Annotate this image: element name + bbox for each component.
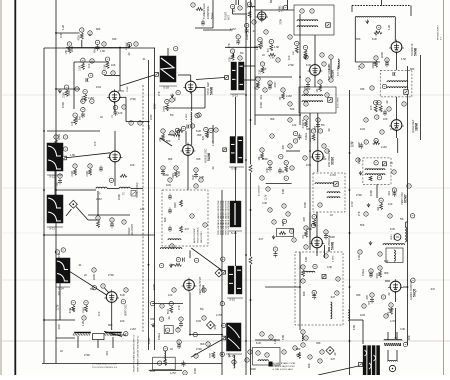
svg-text:27K: 27K — [157, 91, 161, 96]
capacitor C80 — [194, 168, 198, 172]
node — [81, 99, 85, 103]
svg-text:3.3K: 3.3K — [327, 265, 333, 269]
IF transformer box T11 — [294, 5, 334, 35]
resistor R35 — [269, 53, 276, 56]
svg-text:10K: 10K — [246, 16, 248, 20]
svg-text:TO FOCUS CONTROL 5-9: TO FOCUS CONTROL 5-9 — [92, 367, 118, 369]
svg-text:HOLD CONTROL: HOLD CONTROL — [198, 226, 200, 243]
svg-text:120: 120 — [140, 207, 145, 211]
wire — [350, 319, 364, 321]
wire — [187, 156, 189, 191]
capacitor C50 — [316, 118, 320, 122]
svg-text:.02: .02 — [333, 352, 337, 356]
tube V15 triode — [394, 234, 401, 241]
wire — [394, 18, 396, 42]
svg-text:270V: 270V — [280, 19, 283, 25]
svg-text:470: 470 — [97, 311, 101, 316]
node — [320, 53, 324, 57]
ground — [272, 235, 275, 239]
svg-text:A 12AX7 B 5AN8 C 3CB6: A 12AX7 B 5AN8 C 3CB6 — [273, 362, 297, 365]
potentiometer vert lin — [73, 331, 122, 348]
svg-text:39K: 39K — [322, 157, 327, 161]
capacitor C91 — [268, 161, 272, 165]
wire — [148, 60, 150, 350]
svg-text:150K: 150K — [61, 102, 65, 108]
node — [266, 187, 270, 191]
node test point M4 — [207, 321, 215, 329]
svg-text:1.5K: 1.5K — [401, 57, 407, 61]
resistor R70 — [54, 135, 58, 139]
resistor R11 — [67, 42, 71, 46]
svg-text:.001: .001 — [105, 350, 109, 356]
svg-text:ANT: ANT — [228, 15, 231, 20]
coil L30 — [247, 2, 251, 6]
wire — [167, 48, 169, 56]
sound IF transformer box T15 — [380, 70, 412, 97]
svg-text:3.3K: 3.3K — [296, 353, 302, 357]
node — [411, 278, 415, 282]
node — [183, 371, 187, 375]
svg-text:10K: 10K — [383, 117, 388, 121]
svg-text:5AN8: 5AN8 — [414, 48, 418, 56]
antenna coil L2 — [355, 17, 395, 18]
svg-text:ADJUST HORIZ: ADJUST HORIZ — [193, 228, 196, 243]
node — [220, 301, 224, 305]
node — [324, 230, 328, 234]
wire — [407, 66, 409, 345]
node — [283, 5, 287, 9]
svg-text:5AN8: 5AN8 — [331, 242, 335, 250]
svg-text:4.7M: 4.7M — [390, 319, 396, 323]
svg-text:2.2M: 2.2M — [130, 327, 136, 331]
resistor R22 — [205, 132, 208, 139]
svg-text:1MEG: 1MEG — [255, 83, 259, 90]
node — [221, 257, 225, 261]
resistor R110 — [175, 263, 182, 266]
wire — [97, 191, 99, 215]
wire — [323, 245, 325, 258]
node — [364, 140, 368, 144]
coil L70 — [96, 187, 107, 188]
node — [387, 107, 391, 111]
node — [311, 223, 315, 227]
node — [301, 330, 305, 334]
svg-text:33K: 33K — [112, 37, 117, 41]
svg-text:220K: 220K — [63, 92, 65, 98]
svg-text:1.5K: 1.5K — [66, 49, 68, 54]
node — [293, 131, 297, 135]
wire — [167, 107, 205, 109]
svg-text:8.2K: 8.2K — [229, 56, 231, 61]
resistor R151 — [389, 303, 393, 307]
svg-text:5-13: 5-13 — [232, 94, 238, 98]
svg-text:5AN8: 5AN8 — [207, 153, 211, 161]
capacitor C20 — [187, 125, 189, 129]
node — [124, 332, 128, 336]
node — [301, 265, 305, 269]
svg-text:1.2K: 1.2K — [61, 24, 65, 30]
tube V11 — [182, 278, 197, 293]
node — [369, 269, 373, 273]
svg-text:5-14: 5-14 — [58, 287, 64, 291]
node — [403, 342, 407, 346]
svg-text:270K: 270K — [306, 227, 312, 231]
output transformer T17 — [384, 340, 402, 362]
wire — [105, 288, 110, 293]
node — [410, 214, 414, 218]
svg-text:560K: 560K — [262, 157, 268, 161]
svg-text:1meg: 1meg — [375, 30, 378, 37]
wire — [212, 0, 214, 28]
svg-text:470K: 470K — [377, 273, 379, 279]
coil L140 — [405, 227, 407, 242]
wire — [396, 350, 398, 360]
svg-text:33K: 33K — [306, 127, 311, 131]
fold line — [0, 340, 450, 342]
wire — [203, 29, 233, 31]
svg-text:10%: 10% — [196, 319, 202, 323]
svg-text:56K: 56K — [360, 223, 365, 227]
resistor R31 — [258, 38, 262, 42]
resistor R120 — [212, 352, 215, 359]
svg-text:.005: .005 — [302, 216, 306, 222]
resistor R33 — [230, 49, 234, 53]
svg-text:120: 120 — [168, 293, 173, 297]
svg-text:10%: 10% — [360, 127, 366, 131]
wire — [44, 319, 75, 321]
svg-text:8.2K: 8.2K — [372, 37, 378, 41]
svg-text:1.2K: 1.2K — [81, 320, 85, 326]
tube V10 — [181, 143, 196, 158]
coil L110 — [160, 248, 182, 249]
svg-text:1K: 1K — [283, 170, 285, 173]
capacitor C30 — [245, 23, 249, 27]
wire — [191, 122, 193, 145]
resistor R41 — [256, 77, 260, 81]
resistor R43 — [304, 50, 307, 57]
wire — [42, 363, 222, 365]
transformer T2 — [230, 62, 245, 98]
node — [102, 70, 106, 74]
resistor R10 — [80, 28, 84, 32]
svg-text:4.7M: 4.7M — [390, 127, 396, 131]
svg-text:39K: 39K — [197, 133, 202, 137]
svg-text:G 12B4 H 1G3 J 6AX4: G 12B4 H 1G3 J 6AX4 — [273, 368, 294, 371]
svg-text:6CM7: 6CM7 — [404, 194, 408, 203]
svg-text:1MEG: 1MEG — [157, 333, 161, 340]
svg-text:47K: 47K — [57, 253, 61, 258]
svg-text:470: 470 — [369, 105, 373, 110]
wire — [255, 339, 280, 341]
wire — [43, 48, 45, 363]
wire — [255, 9, 294, 11]
page edge — [0, 0, 2, 375]
svg-text:2.2M: 2.2M — [88, 96, 94, 100]
svg-text:27K: 27K — [177, 305, 181, 310]
wire — [47, 130, 100, 132]
wire — [420, 55, 422, 140]
wire — [316, 248, 318, 256]
node — [199, 178, 203, 182]
IF transformer box T13 — [313, 173, 345, 212]
svg-text:680: 680 — [306, 87, 311, 91]
wire - afc diagonal — [64, 153, 110, 158]
left margin rule — [14, 0, 16, 375]
wire - speaker lead diagonal — [318, 366, 359, 375]
svg-text:6.8K: 6.8K — [281, 188, 285, 194]
wire — [190, 75, 192, 81]
svg-text:10K: 10K — [111, 63, 116, 67]
wire — [56, 189, 80, 191]
svg-text:120: 120 — [292, 123, 297, 127]
coil L120 — [164, 351, 165, 361]
wire — [254, 0, 256, 125]
resistor R130 — [298, 352, 301, 359]
node — [392, 188, 396, 192]
node — [308, 355, 312, 359]
svg-text:10%: 10% — [306, 163, 312, 167]
IF transformer box T14 — [295, 252, 343, 325]
resistor R71 — [73, 164, 77, 168]
node — [121, 300, 125, 304]
wire — [396, 53, 398, 71]
resistor R90 — [284, 161, 288, 165]
value labels 2 — [57, 24, 415, 375]
resistor R15 — [83, 90, 87, 94]
capacitor C92 — [273, 247, 277, 251]
svg-text:10%: 10% — [96, 85, 102, 89]
svg-text:5-11: 5-11 — [49, 227, 55, 231]
svg-text:470: 470 — [93, 141, 97, 146]
svg-text:39K: 39K — [384, 271, 389, 275]
wire — [385, 280, 390, 282]
svg-text:560K: 560K — [163, 173, 169, 177]
svg-text:100K: 100K — [369, 190, 373, 196]
capacitor C13 — [89, 73, 93, 77]
svg-text:1.5K: 1.5K — [70, 153, 76, 157]
node — [268, 208, 272, 212]
tube V5 — [310, 149, 325, 164]
svg-text:VERT SWEEP CIRCUIT SEE PAGE 12: VERT SWEEP CIRCUIT SEE PAGE 12 — [137, 335, 140, 372]
node — [177, 340, 181, 344]
node — [360, 64, 364, 68]
svg-text:B 25.75MC: B 25.75MC — [338, 97, 340, 108]
node — [159, 317, 163, 321]
svg-text:10%: 10% — [166, 183, 172, 187]
svg-text:1MEG: 1MEG — [304, 133, 308, 140]
wire — [154, 48, 156, 350]
svg-text:SYNC: SYNC — [127, 86, 129, 92]
svg-text:1MEG: 1MEG — [177, 133, 181, 140]
sq tap on T9 — [222, 336, 226, 340]
svg-text:3.3K: 3.3K — [199, 175, 205, 179]
wire — [66, 47, 129, 49]
tube V2 — [183, 79, 198, 94]
wire — [232, 9, 234, 14]
svg-text:TRAP: TRAP — [282, 5, 285, 12]
blocking transformer T18 — [383, 244, 405, 263]
svg-text:HORIZ FREQ: HORIZ FREQ — [136, 183, 139, 198]
svg-text:.02: .02 — [127, 52, 131, 56]
svg-text:3.3K: 3.3K — [400, 327, 406, 331]
svg-text:82K: 82K — [302, 291, 306, 296]
node test point M2 — [326, 347, 334, 355]
resistor R40 — [260, 62, 264, 66]
svg-text:.0047: .0047 — [273, 81, 277, 88]
resistor R12 — [81, 58, 85, 62]
ground — [359, 171, 362, 175]
node — [129, 121, 133, 125]
ratio detector box T16 — [253, 348, 281, 366]
svg-text:33K: 33K — [360, 87, 365, 91]
svg-text:27K: 27K — [227, 43, 231, 48]
node — [63, 135, 67, 139]
svg-text:SNOWY PICTURE ADJUST NOTES 5-9: SNOWY PICTURE ADJUST NOTES 5-9 — [133, 334, 136, 372]
ground — [169, 264, 172, 268]
wire — [309, 130, 311, 250]
svg-text:.001: .001 — [387, 190, 391, 196]
core box — [131, 191, 136, 196]
resistor R30 — [248, 11, 251, 18]
svg-text:56K: 56K — [90, 287, 95, 291]
svg-text:270K: 270K — [196, 347, 202, 351]
svg-text:217V: 217V — [350, 141, 353, 147]
wire — [403, 286, 408, 288]
wire - diagonal to I block — [191, 339, 224, 358]
wire — [149, 369, 182, 371]
svg-text:5AQ5: 5AQ5 — [413, 288, 417, 297]
svg-text:.005: .005 — [227, 352, 231, 358]
svg-text:.02: .02 — [327, 128, 331, 132]
node — [286, 212, 290, 216]
node — [127, 42, 131, 46]
svg-text:47K: 47K — [357, 65, 361, 70]
svg-text:.0027: .0027 — [193, 174, 195, 180]
svg-text:CONTROL: CONTROL — [206, 5, 210, 19]
svg-text:2.2M: 2.2M — [286, 94, 292, 98]
wire — [221, 190, 223, 375]
elec cap box — [153, 357, 176, 370]
extra ref circles — [75, 6, 406, 364]
svg-text:.047: .047 — [330, 357, 336, 361]
svg-text:560K: 560K — [388, 307, 394, 311]
node — [301, 279, 305, 283]
wire — [309, 212, 311, 237]
svg-text:2.2M: 2.2M — [87, 171, 89, 176]
transformer T5 — [229, 137, 244, 171]
resistor R140 — [373, 142, 380, 145]
capacitor C120 — [181, 361, 185, 368]
resistor R141 — [379, 198, 383, 202]
coil L71 — [119, 187, 130, 188]
svg-text:220K: 220K — [92, 274, 96, 280]
svg-text:4.5MC: 4.5MC — [333, 255, 335, 262]
svg-text:150K: 150K — [303, 202, 307, 208]
node — [374, 101, 378, 105]
node — [290, 166, 294, 170]
wire — [119, 48, 121, 92]
svg-text:2.2M: 2.2M — [72, 171, 74, 176]
fold line — [0, 232, 450, 234]
wire — [349, 90, 351, 375]
transformer T7 — [56, 258, 70, 291]
quad coil box — [363, 158, 391, 184]
svg-text:.01: .01 — [372, 61, 376, 65]
svg-text:680: 680 — [410, 67, 415, 71]
svg-text:THIS VOLTAGE VARIES WITH THE: THIS VOLTAGE VARIES WITH THE — [227, 200, 230, 235]
svg-text:270K: 270K — [108, 273, 114, 277]
svg-text:117V: 117V — [57, 304, 60, 310]
resistor R51 — [312, 134, 315, 141]
svg-text:270K: 270K — [288, 63, 294, 67]
wire — [309, 113, 311, 150]
fold line — [0, 187, 450, 189]
resistor on bus — [249, 164, 253, 173]
svg-text:.047: .047 — [430, 287, 436, 291]
wire — [114, 162, 116, 186]
node — [260, 332, 264, 336]
wire — [316, 212, 318, 237]
svg-text:680: 680 — [96, 27, 101, 31]
transformer T1 — [159, 56, 177, 90]
svg-text:680: 680 — [296, 347, 301, 351]
svg-text:1MEG: 1MEG — [361, 269, 365, 276]
wire — [44, 47, 155, 49]
svg-text:220V: 220V — [154, 103, 157, 109]
speaker — [389, 365, 395, 371]
node — [325, 149, 329, 153]
wire — [120, 96, 126, 98]
node — [375, 115, 379, 119]
svg-text:10K: 10K — [120, 319, 125, 323]
svg-text:8.2K: 8.2K — [53, 142, 55, 147]
svg-text:680: 680 — [168, 157, 173, 161]
black terminal — [269, 362, 273, 367]
wire — [376, 184, 378, 198]
svg-text:.005: .005 — [206, 131, 210, 137]
node — [268, 81, 272, 85]
node — [181, 126, 185, 130]
resistor R91 — [260, 148, 264, 152]
svg-text:.005: .005 — [281, 144, 285, 150]
B+ bus — [245, 0, 247, 375]
resistor R13 — [105, 57, 109, 61]
svg-text:4.7M: 4.7M — [170, 371, 176, 375]
svg-text:.01: .01 — [78, 263, 82, 267]
svg-text:39K: 39K — [378, 206, 380, 211]
capacitor C90 — [298, 134, 302, 141]
svg-text:D 3BN6 E 5AQ5 F 6CM7: D 3BN6 E 5AQ5 F 6CM7 — [273, 365, 296, 368]
capacitor C40 — [306, 78, 310, 82]
wire — [55, 0, 57, 363]
svg-text:100K: 100K — [80, 65, 82, 71]
svg-text:82K: 82K — [407, 335, 411, 340]
node — [311, 129, 315, 133]
IF transformer box T12 — [299, 87, 336, 113]
svg-text:100K: 100K — [259, 102, 263, 108]
wire — [114, 102, 116, 112]
svg-text:.0047: .0047 — [54, 193, 58, 200]
svg-text:2.2M: 2.2M — [381, 145, 387, 149]
svg-text:.0047: .0047 — [357, 141, 361, 148]
svg-text:4.7M: 4.7M — [230, 27, 236, 31]
trap box — [277, 229, 294, 237]
wire — [74, 61, 108, 63]
svg-text:82K: 82K — [281, 221, 285, 226]
svg-text:33K: 33K — [356, 293, 361, 297]
svg-text:82K: 82K — [307, 363, 311, 368]
resistor R100 — [71, 301, 75, 305]
